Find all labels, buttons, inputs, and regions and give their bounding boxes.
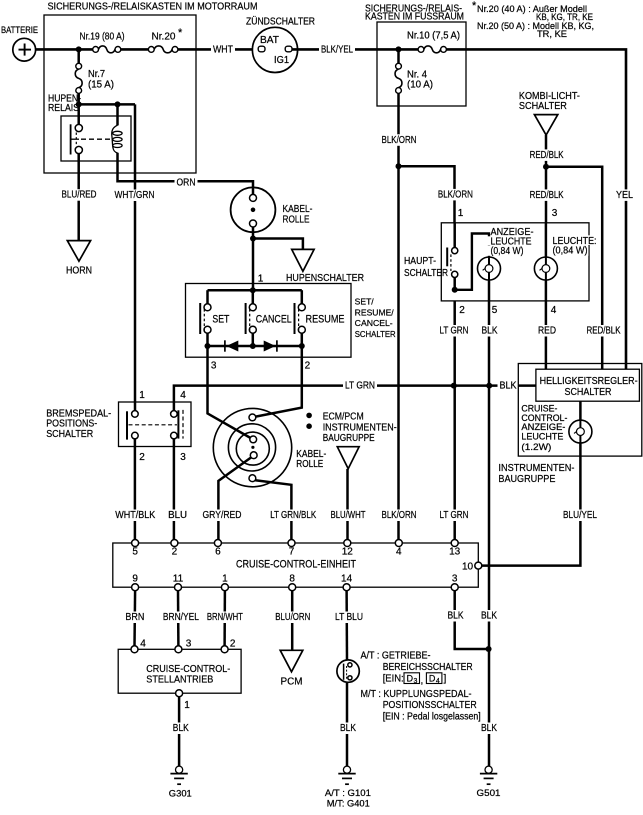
junction: BLK ground bus xyxy=(486,646,492,652)
junction: LT GRN to cruise pin 13 xyxy=(451,383,457,389)
ground G501 xyxy=(485,766,492,773)
box: Sicherungs-/Relaiskasten im Fussraum xyxy=(377,22,466,106)
svg-text:RED/BLK: RED/BLK xyxy=(587,326,621,337)
svg-text:1: 1 xyxy=(222,574,228,585)
svg-text:CRUISE-CONTROL-EINHEIT: CRUISE-CONTROL-EINHEIT xyxy=(236,558,356,570)
gear position switch circle xyxy=(337,660,359,682)
horn symbol triangle xyxy=(67,241,90,262)
wire: fuse 7 to relay bus xyxy=(77,93,80,105)
svg-text:7: 7 xyxy=(289,547,295,558)
svg-text:4: 4 xyxy=(551,305,557,316)
svg-text:IG1: IG1 xyxy=(274,55,289,66)
svg-text:SCHALTER: SCHALTER xyxy=(519,101,567,112)
wire: SET pin3 down to cable reel 2 xyxy=(208,346,251,438)
wire: to relay coil xyxy=(116,104,119,125)
svg-text:BLU/ORN: BLU/ORN xyxy=(275,612,310,623)
box: Cruise-Control-Stellantrieb xyxy=(118,649,241,693)
diode D2 pointing right xyxy=(264,341,276,352)
svg-text:CANCEL-: CANCEL- xyxy=(355,318,393,328)
wire: to relay contact xyxy=(77,104,80,124)
junction: horn switch branch xyxy=(250,236,256,242)
wire: diode bus xyxy=(208,345,302,348)
svg-text:KASTEN IM FUSSRAUM: KASTEN IM FUSSRAUM xyxy=(365,12,464,23)
svg-text:LT GRN: LT GRN xyxy=(440,326,469,337)
svg-text:BLK/ORN: BLK/ORN xyxy=(382,510,417,521)
svg-text:(0,84 W): (0,84 W) xyxy=(491,246,524,257)
svg-text:BLU/YEL: BLU/YEL xyxy=(563,510,597,521)
svg-text:HUPENSCHALTER: HUPENSCHALTER xyxy=(286,273,364,284)
box: Instrumenten-Baugruppe xyxy=(518,364,642,457)
svg-text:4: 4 xyxy=(180,390,186,401)
svg-text:TR, KE: TR, KE xyxy=(537,29,567,39)
wire: BLU/YEL lamp down and left to cruise pin10 xyxy=(481,443,580,566)
svg-text:Nr.19 (80 A): Nr.19 (80 A) xyxy=(80,32,125,43)
svg-text:BLU/WHT: BLU/WHT xyxy=(331,510,366,521)
wire: RED/BLK branch to dimmer xyxy=(546,167,602,369)
indicator lamp Anzeige-Leuchte 0.84W xyxy=(478,257,501,280)
fuse Nr.7 (15A) xyxy=(76,63,82,69)
svg-text:2: 2 xyxy=(230,638,236,649)
svg-text:2: 2 xyxy=(305,361,311,372)
svg-text:RED/BLK: RED/BLK xyxy=(530,190,564,201)
svg-text:BLK: BLK xyxy=(482,326,498,337)
cruise unit bottom pins xyxy=(132,584,139,591)
wire: reel to cruise pin6 GRY/RED xyxy=(218,458,251,540)
svg-text:BAT: BAT xyxy=(260,35,279,46)
wire: cable reel to horn switch junction xyxy=(252,227,255,290)
svg-text:SET/: SET/ xyxy=(355,297,375,307)
svg-text:]: ] xyxy=(444,674,447,685)
wire: WHT/GRN relay feed down to brake pedal switch xyxy=(134,104,137,410)
wire: RED Hauptschalter pin4 down to dimmer switch xyxy=(545,301,548,369)
horn switch Hupenschalter triangle xyxy=(292,249,314,271)
wire: BLK/ORN fuse4 down to cruise pin4 xyxy=(396,63,402,69)
svg-text:INSTRUMENTEN-: INSTRUMENTEN- xyxy=(323,422,397,433)
svg-text:(10 A): (10 A) xyxy=(407,80,433,91)
wire: BLU/ORN pin8 to PCM xyxy=(291,591,294,651)
wire: lamp to pin5 xyxy=(488,280,491,301)
wire: BLK actuator to ground G301 xyxy=(178,697,181,766)
relay contact xyxy=(75,124,82,131)
wire: WHT to ignition switch xyxy=(178,48,259,51)
junction: BLK lamp ground xyxy=(486,383,492,389)
svg-text:BLK: BLK xyxy=(173,723,189,734)
svg-text:A/T : G101: A/T : G101 xyxy=(325,788,371,798)
horn relay Hupen-Relais xyxy=(61,116,131,161)
ECM/PCM + instrument note xyxy=(306,413,312,419)
svg-text:SCHALTER: SCHALTER xyxy=(404,268,448,279)
junction: RED/BLK branch xyxy=(543,164,549,170)
svg-text:5: 5 xyxy=(132,547,138,558)
main switch contact xyxy=(453,223,456,248)
svg-text:BLK: BLK xyxy=(481,723,497,734)
svg-text:12: 12 xyxy=(342,547,354,558)
box: Bremspedal-Positions-Schalter xyxy=(119,402,192,447)
svg-text:HAUPT-: HAUPT- xyxy=(404,256,436,267)
svg-text:A/T : GETRIEBE-: A/T : GETRIEBE- xyxy=(361,651,431,662)
svg-text:BLK: BLK xyxy=(500,381,517,392)
svg-text:(1.2W): (1.2W) xyxy=(521,442,551,452)
junction: BLK/ORN branch to Hauptschalter xyxy=(396,163,402,169)
svg-text:1: 1 xyxy=(139,390,145,401)
svg-text:BAUGRUPPE: BAUGRUPPE xyxy=(323,433,375,444)
wire: BLK Hauptschalter pin5 down to ground G501 xyxy=(488,301,491,766)
svg-text:D: D xyxy=(429,674,436,684)
svg-text:13: 13 xyxy=(449,547,461,558)
svg-text:SCHALTER: SCHALTER xyxy=(355,329,396,339)
wire: lamp2 to pin4 xyxy=(545,280,548,301)
svg-text:G501: G501 xyxy=(477,788,501,798)
svg-text:BLK: BLK xyxy=(481,611,497,622)
wire: BLK/ORN branch right-down to Hauptschalter pin1 xyxy=(399,166,455,223)
svg-text:LT GRN: LT GRN xyxy=(345,381,375,392)
svg-text:LEUCHTE: LEUCHTE xyxy=(521,431,563,441)
wire: BLK switch to ground G101/G401 xyxy=(346,682,349,766)
svg-text:RED: RED xyxy=(538,326,556,337)
svg-text:WHT/GRN: WHT/GRN xyxy=(115,190,155,201)
svg-text:10: 10 xyxy=(462,561,474,572)
svg-text:[EIN:: [EIN: xyxy=(383,674,404,685)
wire: BLU brake pin3 to cruise pin2 xyxy=(173,439,176,540)
svg-text:BLK/ORN: BLK/ORN xyxy=(438,189,473,200)
svg-text:[EIN : Pedal losgelassen]: [EIN : Pedal losgelassen] xyxy=(383,711,481,722)
svg-text:GRY/RED: GRY/RED xyxy=(203,510,242,521)
fuse Nr.20 xyxy=(148,47,154,53)
svg-text:3: 3 xyxy=(180,452,186,463)
wire: RESUME pin2 down to cable reel 2 xyxy=(256,346,302,417)
svg-text:ECM/PCM: ECM/PCM xyxy=(323,412,364,423)
wire: BRN/YEL pin11 to actuator pin3 xyxy=(177,591,180,646)
wire: LT GRN brake switch pin4 to instrument cluster xyxy=(174,386,536,411)
svg-text:RESUME/: RESUME/ xyxy=(355,307,395,317)
svg-text:2: 2 xyxy=(459,305,465,316)
svg-text:(0,84 W): (0,84 W) xyxy=(553,246,588,257)
svg-text:LT GRN: LT GRN xyxy=(440,510,469,521)
svg-text:1: 1 xyxy=(184,700,190,711)
box: Haupt-Schalter xyxy=(441,223,589,301)
relay coil xyxy=(112,125,118,153)
svg-text:WHT/BLK: WHT/BLK xyxy=(115,510,155,521)
junction: fuse Nr.4 branch xyxy=(396,46,402,52)
svg-text:PCM: PCM xyxy=(281,677,303,688)
cable reel 2 Kabel-Rolle xyxy=(213,408,291,486)
svg-text:4: 4 xyxy=(396,547,402,558)
svg-text:BLU: BLU xyxy=(168,510,187,521)
svg-text:ORN: ORN xyxy=(177,177,196,188)
switch SET xyxy=(206,290,209,304)
svg-text:ROLLE: ROLLE xyxy=(283,214,310,225)
wire: BLK pin3 right to ground bus xyxy=(455,591,489,649)
svg-text:3: 3 xyxy=(186,638,192,649)
svg-text:CANCEL: CANCEL xyxy=(256,313,292,325)
arrow to ECM/PCM triangle xyxy=(337,447,359,469)
svg-text:LT BLU: LT BLU xyxy=(335,612,363,623)
cruise unit top pins xyxy=(132,540,139,547)
svg-text:BEREICHSSCHALTER: BEREICHSSCHALTER xyxy=(383,662,473,673)
wire: LT BLU pin14 to gear switch xyxy=(345,591,348,660)
svg-text:,: , xyxy=(421,676,424,687)
svg-text:G301: G301 xyxy=(169,789,192,799)
wire: WHT/BLK brake pin2 to cruise pin5 xyxy=(134,439,137,540)
svg-text:3: 3 xyxy=(211,361,217,372)
svg-text:9: 9 xyxy=(132,574,138,585)
svg-text:INSTRUMENTEN-: INSTRUMENTEN- xyxy=(498,463,574,474)
svg-text:SET: SET xyxy=(212,313,229,325)
svg-text:BATTERIE: BATTERIE xyxy=(1,25,38,35)
brake switch blades xyxy=(126,411,128,439)
svg-text:2: 2 xyxy=(172,547,178,558)
row of wire labels above cruise unit xyxy=(113,510,157,522)
wire: BLK/YEL ignition to fuse box 2 xyxy=(292,48,418,51)
svg-text:BRN/WHT: BRN/WHT xyxy=(207,612,243,623)
fuse Nr.19 (80A) xyxy=(93,47,99,53)
svg-text:8: 8 xyxy=(289,574,295,585)
svg-text:BLK/ORN: BLK/ORN xyxy=(382,135,417,146)
svg-text:YEL: YEL xyxy=(616,190,633,201)
svg-text:3: 3 xyxy=(552,208,558,219)
svg-text:Nr.20: Nr.20 xyxy=(152,32,176,43)
svg-text:3: 3 xyxy=(414,678,418,685)
wire: RED/BLK from Kombi switch xyxy=(545,135,548,223)
svg-text:Nr.20 (50 A) : Modell KB, KG,: Nr.20 (50 A) : Modell KB, KG, xyxy=(477,21,594,31)
svg-text:ROLLE: ROLLE xyxy=(296,459,323,470)
wire: dimmer to cruise indicator lamp xyxy=(579,401,582,420)
svg-text:RED/BLK: RED/BLK xyxy=(530,150,564,161)
wire: BLU/WHT cruise pin12 up to arrow xyxy=(346,469,349,540)
box: Cruise-Control-Einheit xyxy=(113,543,479,587)
svg-text:(15 A): (15 A) xyxy=(88,80,114,91)
svg-text:5: 5 xyxy=(492,305,498,316)
svg-text:M/T : KUPPLUNGSPEDAL-: M/T : KUPPLUNGSPEDAL- xyxy=(361,689,472,700)
wire: fuse 7 feed xyxy=(77,49,80,63)
svg-text:BLK: BLK xyxy=(340,723,356,734)
svg-text:3: 3 xyxy=(452,574,458,585)
svg-text:14: 14 xyxy=(341,574,353,585)
svg-text:Nr.10 (7,5 A): Nr.10 (7,5 A) xyxy=(407,31,460,42)
svg-text:1: 1 xyxy=(458,208,464,219)
svg-text:6: 6 xyxy=(215,547,221,558)
wire: BRN pin9 to actuator pin4 xyxy=(133,591,136,646)
svg-text:BLK: BLK xyxy=(448,611,464,622)
svg-text:HELLIGKEITSREGLER-: HELLIGKEITSREGLER- xyxy=(540,376,638,387)
box: Sicherungs-/Relaiskasten im Motorraum xyxy=(44,15,196,173)
wire: between fuse 19 and 20 xyxy=(121,48,149,51)
ignition switch Zuendschalter xyxy=(252,27,297,72)
svg-text:WHT: WHT xyxy=(213,45,233,56)
lamp Leuchte 0.84W xyxy=(545,223,548,257)
svg-text:BLU/RED: BLU/RED xyxy=(62,190,97,201)
fuse Nr.10 (7.5A) xyxy=(418,47,424,53)
svg-text:*: * xyxy=(178,27,183,39)
svg-text:2: 2 xyxy=(139,452,145,463)
wire: ORN relay coil to cable reel xyxy=(118,153,254,195)
junction: main feed / fuse Nr.7 xyxy=(76,46,82,52)
svg-text:BAUGRUPPE: BAUGRUPPE xyxy=(498,474,555,485)
svg-text:4: 4 xyxy=(436,678,440,685)
svg-text:BLK/YEL: BLK/YEL xyxy=(321,45,353,56)
ground G101/G401 xyxy=(343,766,350,773)
wire: BLU/RED relay to horn xyxy=(77,154,80,241)
svg-text:D: D xyxy=(407,674,414,684)
cable reel 1 Kabel-Rolle xyxy=(231,187,276,232)
svg-text:BRN: BRN xyxy=(125,612,144,623)
box: Helligkeitsregler-Schalter xyxy=(536,369,640,401)
svg-text:Nr.7: Nr.7 xyxy=(88,69,105,80)
svg-text:M/T: G401: M/T: G401 xyxy=(327,799,370,809)
wire: relay top bus xyxy=(79,103,135,106)
cruise control indicator lamp 1.2W xyxy=(569,420,592,443)
battery xyxy=(13,38,36,61)
wire: battery to fuse box main feed xyxy=(35,48,93,51)
diode D1 pointing left xyxy=(224,340,226,351)
svg-text:POSITIONSSCHALTER: POSITIONSSCHALTER xyxy=(383,700,477,711)
PCM triangle xyxy=(280,650,303,672)
wire: to horn switch xyxy=(253,239,303,250)
svg-text:SCHALTER: SCHALTER xyxy=(46,429,93,440)
junction + jumper to indicator lamp xyxy=(452,287,458,293)
ground G301 xyxy=(176,766,183,773)
wire: LT GRN Hauptschalter pin2 down to cruise pin13 xyxy=(453,301,456,540)
svg-text:11: 11 xyxy=(173,574,184,585)
svg-text:RESUME: RESUME xyxy=(306,313,345,325)
wire: reel to cruise pin7 LT GRN/BLK xyxy=(255,480,291,539)
svg-text:HORN: HORN xyxy=(66,265,92,276)
wire: fuse box 2 output to right edge, turns down (YEL) xyxy=(446,49,626,369)
svg-text:SICHERUNGS-/RELAISKASTEN IM MO: SICHERUNGS-/RELAISKASTEN IM MOTORRAUM xyxy=(48,2,258,13)
switch RESUME xyxy=(301,290,304,304)
wire: feed into switch box xyxy=(250,287,256,293)
svg-text:BRN/YEL: BRN/YEL xyxy=(163,612,199,623)
cruise unit pin 10 xyxy=(475,562,482,569)
wire: BRN/WHT pin1 to actuator pin2 xyxy=(223,591,226,646)
switch CANCEL xyxy=(252,290,255,304)
box: Set/Resume/Cancel-Schalter xyxy=(186,284,352,358)
svg-text:ZÜNDSCHALTER: ZÜNDSCHALTER xyxy=(246,16,315,28)
svg-text:STELLANTRIEB: STELLANTRIEB xyxy=(146,674,213,686)
svg-text:LT GRN/BLK: LT GRN/BLK xyxy=(270,510,316,521)
svg-text:RELAIS: RELAIS xyxy=(48,103,79,114)
svg-text:4: 4 xyxy=(140,638,146,649)
svg-text:SCHALTER: SCHALTER xyxy=(565,387,612,398)
